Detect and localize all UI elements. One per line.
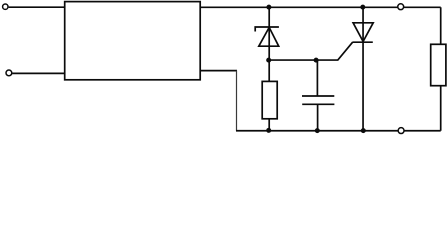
junction bottom thyristor bbox=[361, 128, 366, 133]
capacitor bbox=[302, 96, 334, 104]
wire right edge bottom bbox=[440, 86, 442, 131]
block (power supply module) bbox=[65, 2, 201, 80]
wire resistor to rail bbox=[268, 119, 270, 131]
junction top zener bbox=[266, 5, 271, 10]
wire input top bbox=[9, 6, 65, 8]
resistor lower bbox=[262, 81, 277, 118]
capacitor branch wire top bbox=[316, 60, 318, 96]
terminal output bottom bbox=[398, 128, 404, 134]
wire right edge top bbox=[440, 7, 442, 44]
wire bottom rail bbox=[236, 130, 441, 132]
junction gate left bbox=[266, 58, 271, 63]
terminal input bottom bbox=[6, 70, 12, 76]
wire zener branch bbox=[268, 7, 270, 81]
terminal input top bbox=[3, 4, 8, 9]
wire top rail bbox=[200, 6, 441, 8]
wire gate net bbox=[269, 42, 352, 60]
wire input bottom bbox=[12, 72, 64, 74]
terminal output top bbox=[398, 4, 404, 10]
capacitor branch wire bottom bbox=[317, 104, 319, 130]
wire thyristor branch bbox=[362, 7, 364, 131]
resistor load bbox=[431, 44, 446, 85]
junction bottom capacitor bbox=[315, 128, 320, 133]
junction gate capacitor bbox=[314, 58, 319, 63]
wire down to bottom rail bbox=[236, 71, 238, 131]
wire block lower output bbox=[200, 70, 237, 72]
thyristor bbox=[352, 23, 373, 42]
junction bottom resistor bbox=[266, 128, 271, 133]
junction top thyristor bbox=[360, 5, 365, 10]
zener diode bbox=[255, 27, 279, 46]
